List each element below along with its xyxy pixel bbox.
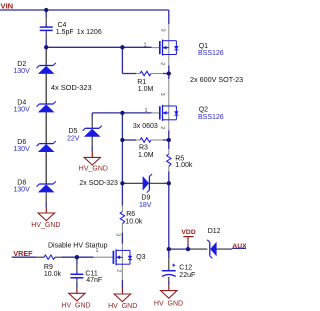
svg-text:47nF: 47nF	[86, 277, 102, 284]
svg-text:BSS126: BSS126	[198, 114, 224, 121]
svg-text:R1: R1	[137, 79, 146, 86]
svg-text:R6: R6	[126, 211, 135, 218]
svg-text:1.0M: 1.0M	[138, 86, 154, 93]
svg-text:VREF: VREF	[13, 249, 33, 258]
svg-text:D12: D12	[208, 228, 221, 235]
svg-text:1.0M: 1.0M	[138, 152, 154, 159]
svg-text:2x 600V SOT-23: 2x 600V SOT-23	[190, 75, 243, 84]
svg-text:18V: 18V	[139, 202, 152, 209]
svg-text:HV_GND: HV_GND	[79, 166, 108, 173]
svg-text:HV_GND: HV_GND	[31, 222, 60, 229]
svg-text:4x SOD-323: 4x SOD-323	[51, 83, 92, 92]
svg-text:C12: C12	[179, 264, 192, 271]
svg-text:1x 1206: 1x 1206	[77, 29, 102, 36]
svg-text:130V: 130V	[13, 187, 30, 194]
svg-text:10.0k: 10.0k	[44, 271, 62, 278]
svg-text:HV GND: HV GND	[108, 303, 137, 310]
svg-text:10.0k: 10.0k	[125, 218, 143, 225]
svg-text:2: 2	[159, 126, 165, 129]
svg-text:3x 0603: 3x 0603	[133, 123, 158, 130]
svg-text:D2: D2	[17, 61, 26, 68]
svg-text:22uF: 22uF	[179, 272, 195, 279]
svg-text:Disable HV Startup: Disable HV Startup	[48, 242, 108, 249]
svg-text:2: 2	[159, 62, 165, 65]
svg-text:3: 3	[159, 29, 165, 32]
svg-text:130V: 130V	[13, 146, 30, 153]
svg-text:Q3: Q3	[136, 254, 145, 261]
svg-text:1: 1	[145, 108, 148, 114]
svg-text:1.00k: 1.00k	[175, 162, 193, 169]
svg-text:D4: D4	[17, 100, 26, 107]
svg-text:D9: D9	[141, 194, 150, 201]
svg-text:130V: 130V	[13, 107, 30, 114]
svg-text:1: 1	[144, 43, 147, 49]
svg-text:HV GND: HV GND	[61, 303, 90, 310]
svg-text:R3: R3	[139, 145, 148, 152]
svg-text:1: 1	[96, 248, 99, 254]
svg-text:BSS126: BSS126	[198, 50, 224, 57]
svg-text:3: 3	[159, 93, 165, 96]
svg-text:Q1: Q1	[199, 43, 208, 50]
svg-text:VDD: VDD	[181, 229, 195, 236]
svg-text:D6: D6	[17, 139, 26, 146]
svg-text:2: 2	[115, 269, 121, 272]
svg-text:Q2: Q2	[199, 107, 208, 114]
svg-text:D8: D8	[17, 180, 26, 187]
svg-text:22V: 22V	[67, 135, 80, 142]
svg-text:HV GND: HV GND	[154, 301, 183, 308]
svg-text:2x SOD-323: 2x SOD-323	[79, 180, 118, 187]
svg-text:1.5pF: 1.5pF	[56, 29, 74, 36]
svg-text:VIN: VIN	[1, 2, 14, 11]
svg-text:D5: D5	[69, 128, 78, 135]
svg-text:AUX: AUX	[232, 243, 246, 250]
svg-text:130V: 130V	[13, 68, 30, 75]
svg-text:3: 3	[114, 233, 120, 236]
